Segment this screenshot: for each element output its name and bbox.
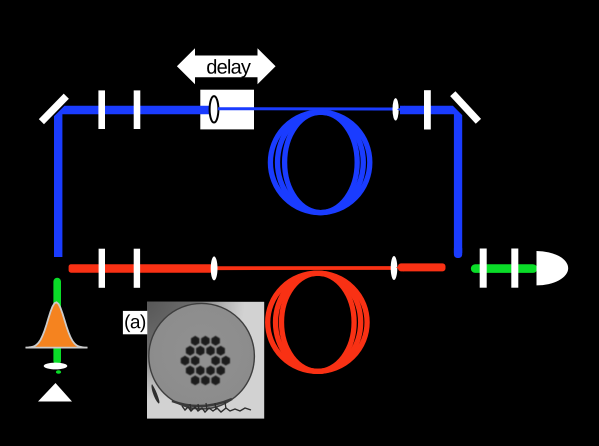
- photo: air holes (18 hexagons): [181, 336, 230, 385]
- label (a) box: [123, 311, 147, 334]
- laser prism triangle: [38, 383, 72, 402]
- photo: bottom scribbles: [182, 406, 251, 412]
- delay double arrow: [177, 48, 276, 84]
- mirror M2 top-right: [453, 94, 479, 122]
- waveplate W5: [134, 249, 140, 288]
- wire: green beam vertical at source: [53, 282, 61, 362]
- wire: red beam thick left: [69, 264, 213, 273]
- wire: blue beam rounded end: [454, 245, 462, 258]
- green dot below lens: [56, 370, 61, 374]
- waveplate W4: [99, 249, 105, 288]
- wire: thin red fiber line: [218, 266, 393, 270]
- waveplate W1: [98, 90, 105, 129]
- waveplate W6: [480, 249, 487, 288]
- lens L2 blue output: [393, 98, 399, 120]
- lens L1 inside delay box: [210, 96, 219, 122]
- photo inset (a): background: [26, 249, 569, 419]
- detector D1 (half-ellipse): [537, 251, 569, 285]
- photo: bottom edge thick rim: [172, 399, 232, 406]
- mirror M1 top-left: [41, 96, 66, 122]
- wire: blue beam top-left L path (bevel at mirror): [54, 106, 213, 257]
- wire: blue beam taper out of lens: [397, 106, 405, 114]
- wire: thin blue fiber line: [218, 107, 393, 110]
- delay text: [207, 59, 251, 78]
- fiber coil red (3 loops): [268, 273, 367, 371]
- wire: red beam taper into lens: [211, 264, 218, 272]
- lens L4 red output: [391, 256, 398, 280]
- wire: green beam at detector (rounded left tip): [475, 264, 533, 273]
- label (a) text: [125, 314, 145, 332]
- wire: blue beam taper into delay lens: [210, 106, 218, 114]
- lens L5 under pulse: [44, 363, 68, 370]
- waveplate W7: [511, 249, 518, 288]
- photo: dark streak bottom-left: [152, 384, 160, 404]
- photo: fiber cladding circle: [149, 303, 255, 409]
- pulse shape (orange gaussian): [26, 302, 88, 347]
- fiber coil blue (3 loops): [270, 112, 369, 212]
- wire: red beam taper out of lens: [396, 264, 404, 272]
- waveplate W3: [424, 90, 431, 129]
- wire: red beam thick right: [398, 263, 446, 271]
- delay stage box: [200, 90, 254, 130]
- waveplate W2: [134, 90, 141, 129]
- wire: blue beam top-right L path (bevel at mirror): [400, 106, 462, 253]
- lens L3 red input: [211, 256, 218, 280]
